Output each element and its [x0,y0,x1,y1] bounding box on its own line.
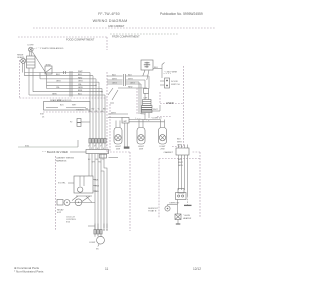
svg-text:BLK: BLK [95,180,99,182]
stack bottom leads [144,113,146,120]
note pointer dashed leader [34,47,39,50]
wires linking bottom cluster [70,202,95,204]
svg-text:WHT: WHT [128,78,133,80]
svg-text:LIGHT: LIGHT [28,45,35,47]
leader line to connector label [18,146,78,148]
door guard component [21,58,26,63]
svg-text:3: 3 [94,146,95,148]
bypass wire right 2 [104,154,107,229]
freezer wire row 3 continued [126,83,142,85]
svg-text:1: 1 [89,145,90,147]
light switch S1 [45,66,52,74]
svg-text:ORG: ORG [95,186,100,188]
svg-text:FOOD COMPARTMENT: FOOD COMPARTMENT [66,38,95,42]
wire bundle row 7 [33,91,102,93]
freezer liner dashed bottom corner [172,146,184,148]
svg-text:⊕5: ⊕5 [96,248,99,251]
lamp L1 fresh food light [28,45,35,52]
svg-text:WHT: WHT [111,112,116,114]
svg-text:ORG: ORG [56,81,61,83]
fresh food compartment dashed left edge [19,60,21,98]
svg-text:5: 5 [101,145,102,147]
cabinet top dashed outline [33,27,215,29]
svg-text:⊕CTRL: ⊕CTRL [58,182,66,185]
compressor motor [89,236,104,250]
liner dashed horizontal with label [160,103,184,105]
fan motor leads [143,70,145,76]
wire color labels left bundle [52,71,83,96]
svg-text:BLK: BLK [112,74,117,76]
fresh food compartment dashed right edge [106,37,108,50]
lamp B3 leads [160,120,162,128]
svg-text:DRAIN HTR: DRAIN HTR [50,99,61,102]
freezer door switch [160,78,170,88]
svg-text:RED: RED [95,191,100,193]
trunk wire v1 [89,73,91,150]
lamp B1 [114,128,122,145]
riser wires from terminal block [28,68,30,95]
harness connector column P3 [70,71,72,97]
main board connector J1 [86,150,109,154]
svg-text:WHT: WHT [153,109,158,111]
svg-text:LMP: LMP [123,121,128,123]
compressor leads [94,224,96,237]
svg-text:FRZR COMPARTMENT: FRZR COMPARTMENT [112,35,140,39]
freezer wire row 4 [118,87,147,89]
svg-text:HEATER: HEATER [183,217,192,220]
svg-text:COMP: COMP [89,242,96,244]
svg-text:RED: RED [128,86,133,88]
svg-text:BLU: BLU [78,94,82,96]
fresh food compartment dashed bottom [20,97,108,99]
svg-text:BLK: BLK [154,67,159,69]
aux connector right of bar [100,154,107,158]
svg-text:7: 7 [106,146,107,148]
freezer wire row 1 [107,75,123,77]
compressor lead extension [100,171,102,237]
defrost thermostat [165,205,170,212]
svg-text:RELAY: RELAY [57,208,64,211]
svg-text:* 1 WHITE WIRE ADDED: * 1 WHITE WIRE ADDED [39,47,64,50]
svg-text:⊕18: ⊕18 [40,113,44,116]
svg-text:WHT: WHT [178,162,183,164]
svg-text:2: 2 [91,148,92,150]
freezer wire row 1 continued [126,75,150,77]
svg-text:WHT: WHT [112,78,117,80]
svg-text:DOOR: DOOR [171,81,178,83]
lamp B2 leads [138,120,140,128]
wire bundle row 2 [25,75,94,77]
svg-text:Publication No. 5995W24559: Publication No. 5995W24559 [160,12,203,16]
junction dots [95,85,96,86]
machine compartment dashed left edge [129,152,131,231]
routing diagonals [108,88,113,95]
svg-text:* 1 BLK WIRE: * 1 BLK WIRE [164,72,178,74]
freezer wire row 2 continued [126,79,146,81]
wire guard leads [22,63,24,73]
stub wire right of connector [109,157,119,159]
svg-text:FF-TW-4F50: FF-TW-4F50 [98,12,120,16]
lamp junction box [122,118,129,124]
svg-text:4: 4 [97,148,98,150]
machine compartment dashed right edge [199,152,201,218]
freezer feed wire [161,65,163,79]
wire relay to thermostat [177,200,179,215]
svg-text:BLK: BLK [78,74,82,76]
lamp leads wires [29,52,31,56]
svg-text:* FRZ: * FRZ [140,114,146,116]
lamp B1 leads [115,121,117,128]
svg-text:BLK: BLK [56,74,60,76]
svg-text:BLACK W/ 2 RED: BLACK W/ 2 RED [47,150,68,154]
trunk wire v3 [95,79,97,150]
wire bundle row 1 [25,72,91,74]
freezer wire row 3b [107,81,123,83]
defrost heater stack [142,89,153,113]
svg-text:WHT: WHT [78,71,83,73]
trunk wire v5 [101,89,103,150]
svg-text:GRN: GRN [78,87,83,89]
inline connectors bottom [94,230,102,235]
ground terminal [184,196,192,205]
svg-text:BLK: BLK [177,138,182,140]
terminal block TB1 [27,56,36,68]
wire bundle row 5 [47,84,97,86]
svg-text:CABINET: CABINET [164,151,174,154]
note pointer freezer [164,73,172,75]
power cord connector J2 [176,148,189,155]
lamp bus wire [129,119,161,121]
liner dashed lower segment [157,116,172,118]
note pointer lamps [135,118,150,121]
svg-text:* 600W: * 600W [183,215,190,217]
stack side wire [152,110,160,112]
bypass wire right 1 [101,154,104,229]
svg-text:YL: YL [98,109,100,111]
heater lead down [177,220,179,224]
defrost heater stack leads [148,76,150,89]
freezer wire row 2 [107,79,123,81]
drain heater long box [44,99,91,110]
machine compartment dashed top [159,158,200,160]
diagonal routing wire [33,52,47,74]
wire labels below connector [88,159,104,164]
svg-text:ORG: ORG [78,81,83,83]
svg-text:* Non-Illustrated Parts: * Non-Illustrated Parts [14,270,44,274]
routing diagonals below control box [82,196,90,202]
svg-text:BRN: BRN [78,90,83,92]
trunk wire top labels row [76,109,106,114]
power cord connector pins [179,145,188,149]
svg-text:BLK: BLK [128,74,133,76]
defrost heater element [175,214,181,220]
liner dashed edge near trunk [109,104,111,151]
svg-text:25W: 25W [160,149,164,151]
trunk wire v4 [98,82,100,149]
svg-text:LINER: LINER [166,101,174,105]
evaporator fan motor box [141,60,153,70]
svg-text:ORG: ORG [130,82,135,84]
svg-text:25W: 25W [116,149,120,151]
svg-text:BLK: BLK [178,159,183,161]
freezer compartment separator line [110,33,178,35]
svg-text:GRN: GRN [52,94,57,96]
svg-text:CABINET WIRING: CABINET WIRING [56,157,74,160]
defrost timer small parts left [57,200,70,206]
svg-text:5: 5 [100,146,101,148]
svg-text:12/12: 12/12 [193,267,201,271]
trunk wire v2 [92,76,94,150]
leader to connector bar [70,151,86,153]
temperature control box [74,176,100,196]
lamp box drop wires [124,123,126,147]
svg-text:WHT: WHT [177,141,182,143]
fan wire right with label [153,68,162,70]
svg-text:3: 3 [95,145,96,147]
trunk end dots [103,224,105,230]
thermostat circle [75,199,82,206]
trunk wire v6 [104,95,106,150]
inline connector freezer P4 [124,74,126,86]
power cord wires [178,155,180,190]
svg-text:6: 6 [103,148,104,150]
wire bundle row 3 [40,78,96,80]
wire bundle row 8 [29,94,105,96]
lamp B2 [137,128,145,145]
trunk inline connectors cluster [89,139,106,148]
svg-text:DEFROST: DEFROST [148,208,159,210]
svg-text:ORG: ORG [112,82,117,84]
svg-text:11: 11 [105,267,109,271]
svg-text:1: 1 [88,146,89,148]
freezer liner dashed right edge [183,66,185,146]
svg-text:25W: 25W [139,149,143,151]
evaporator duct dashed line [136,88,138,114]
freezer wire row 3 [107,83,123,85]
connector pin labels above [88,146,107,150]
lamp B3 [159,128,167,145]
fresh food compartment dashed top [18,36,107,38]
power cord plug relay [176,189,187,200]
inline connector P2 on row 1 [64,71,66,74]
lamp feed wires [108,113,128,115]
door switch S2 stack [77,119,90,127]
svg-text:GRN: GRN [178,165,183,167]
svg-text:TSTAT ⊕: TSTAT ⊕ [148,210,157,213]
liner dashed corner vertical [159,92,161,104]
machine compartment dashed bottom left [107,151,130,153]
svg-text:GND CABINET: GND CABINET [108,25,125,28]
wire bundle row 4 [47,81,100,83]
svg-text:HARNESS: HARNESS [56,159,67,162]
left harness dashed edge [55,156,57,231]
wire bundle row 6 [47,88,103,90]
svg-text:* LIGHT 2X: * LIGHT 2X [151,118,162,120]
thermal cutout bar [176,223,181,225]
svg-text:P2: P2 [70,122,72,124]
svg-text:WIRING DIAGRAM: WIRING DIAGRAM [93,19,128,23]
svg-text:SWITCH: SWITCH [171,84,180,86]
svg-text:RED: RED [78,77,83,79]
liner dashed bottom right part [43,111,107,113]
machine compartment dashed inner edge [158,159,160,219]
wires below connector [88,154,90,177]
